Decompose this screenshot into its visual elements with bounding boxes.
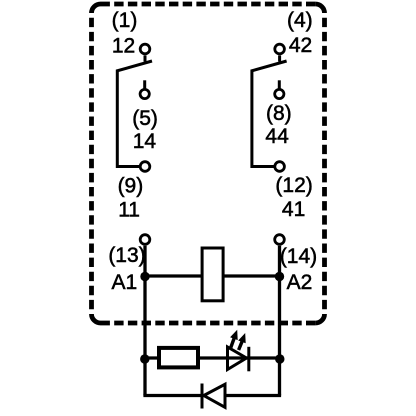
suppressor diode D2 cathode bar — [201, 384, 204, 409]
junction node right of resistor branch — [275, 354, 284, 363]
contact pole 1: terminal 12 circle — [140, 44, 150, 54]
svg-text:44: 44 — [265, 125, 289, 148]
suppressor diode D2 triangle (anode, pointing left) — [204, 384, 225, 407]
svg-text:A1: A1 — [111, 271, 137, 294]
junction node at A2 — [275, 272, 284, 281]
svg-text:(13): (13) — [108, 244, 145, 267]
wire: lower diode branch left segment — [143, 394, 202, 397]
LED D1 light arrow 2 — [238, 333, 246, 350]
svg-text:12: 12 — [112, 34, 135, 57]
contact pole 1: terminal 14 stub wire — [143, 80, 146, 89]
wire: coil horizontal between A1 and A2 — [145, 274, 280, 277]
wire: lower diode branch right segment — [225, 394, 281, 397]
contact pole 1: terminal 14 circle — [140, 89, 149, 98]
LED D1 cathode bar — [247, 347, 250, 372]
LED D1 triangle (anode) — [228, 347, 247, 370]
contact pole 1: terminal 11 circle — [140, 162, 150, 172]
svg-text:(12): (12) — [275, 174, 312, 197]
contact pole 1: movable lever (from terminal 11 to NC contact 12) — [117, 61, 152, 167]
junction node left of resistor branch — [140, 354, 149, 363]
contact pole 1: terminal 12 stub wire — [144, 55, 147, 61]
wire: A1 terminal down to LED/resistor branch and lower diode branch — [143, 246, 146, 396]
contact pole 2: movable lever (from terminal 41 to NC contact 42) — [252, 61, 287, 167]
svg-text:42: 42 — [289, 34, 312, 57]
svg-text:(8): (8) — [266, 102, 292, 125]
contact pole 2: terminal 44 stub wire — [278, 80, 281, 89]
contact pole 2: terminal 42 circle — [275, 44, 285, 54]
svg-text:(4): (4) — [287, 9, 313, 32]
svg-text:(14): (14) — [280, 245, 317, 268]
relay coil K1 — [202, 248, 223, 301]
svg-text:14: 14 — [133, 130, 157, 153]
coil terminal A1 circle — [140, 235, 150, 245]
svg-text:(9): (9) — [118, 175, 144, 198]
svg-text:A2: A2 — [287, 271, 313, 294]
contact pole 2: terminal 42 stub wire — [278, 55, 281, 61]
contact pole 2: terminal 44 circle — [275, 89, 284, 98]
svg-text:(1): (1) — [112, 9, 138, 32]
svg-text:11: 11 — [118, 198, 140, 221]
junction node at A1 — [140, 272, 149, 281]
LED D1 light arrow 1 — [230, 330, 238, 348]
resistor R1 — [159, 348, 198, 368]
svg-text:(5): (5) — [132, 107, 158, 130]
wire: A2 terminal down to LED/resistor branch and lower diode branch — [278, 246, 281, 396]
relay enclosure dashed outline — [92, 4, 325, 323]
svg-text:41: 41 — [282, 198, 305, 221]
wire: resistor/LED branch — [145, 356, 280, 359]
coil terminal A2 circle — [275, 235, 285, 245]
contact pole 2: terminal 41 circle — [275, 162, 285, 172]
